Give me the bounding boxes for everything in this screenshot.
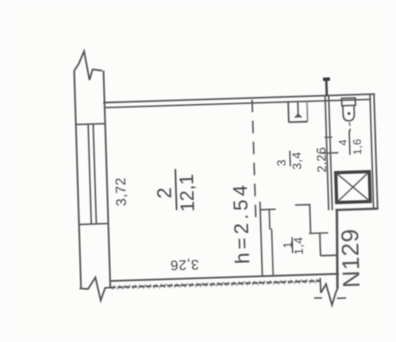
svg-text:3,72: 3,72: [112, 177, 129, 206]
wire bottom wall outer hatched line: [110, 281, 321, 288]
wire left wall inner edge: [103, 71, 110, 288]
wire entry side wall: [335, 210, 339, 289]
svg-text:12,1: 12,1: [176, 174, 199, 213]
wire corridor-bathroom wall line 1: [325, 96, 329, 211]
sink basin mark: [294, 113, 303, 117]
node wc fraction bar: [348, 131, 351, 155]
wire right wall outer line: [374, 94, 378, 209]
wire niche bottom horizontal: [321, 254, 338, 257]
wire top wall outer line: [103, 94, 375, 103]
svg-text:1,4: 1,4: [291, 236, 306, 255]
wire niche lower vertical: [319, 233, 322, 256]
ventilation shaft diagonal 2: [336, 172, 371, 203]
wire bathroom bottom wall: [335, 209, 378, 210]
ventilation shaft box: [336, 172, 371, 203]
sink left edge: [287, 101, 290, 122]
wire bottom-left wall break zigzag: [79, 277, 115, 301]
sink bottom edge: [289, 121, 308, 124]
toilet drain dashes: [349, 122, 351, 131]
wire hall partition left: [260, 202, 262, 276]
svg-text:2: 2: [154, 187, 176, 199]
wire dimension tick upper: [324, 136, 332, 138]
svg-text:h=2.54: h=2.54: [230, 181, 255, 264]
wire left wall outer edge: [74, 71, 81, 288]
wire dimension tick lower: [322, 152, 338, 155]
svg-text:N129: N129: [337, 228, 366, 288]
svg-text:3: 3: [274, 159, 288, 166]
wire hall partition right upper: [268, 210, 271, 229]
wire dashed room-corridor boundary: [252, 100, 256, 226]
svg-text:3,4: 3,4: [290, 151, 305, 170]
wire right wall inner line: [370, 94, 374, 209]
sink faucet stem: [297, 103, 299, 115]
svg-text:4: 4: [337, 139, 349, 145]
wire bottom-right break dash left: [314, 297, 322, 299]
wire window sill bottom tick: [79, 223, 108, 226]
svg-text:1,6: 1,6: [352, 138, 365, 155]
wire bottom wall inner line: [110, 274, 339, 281]
ventilation shaft diagonal 1: [336, 172, 371, 203]
wire bottom-right break dash right: [337, 297, 346, 299]
node room2 fraction bar: [175, 169, 176, 210]
wire niche middle horizontal: [309, 232, 328, 235]
toilet flush dot: [348, 112, 351, 115]
wire window pane line 1: [88, 124, 91, 224]
wire bottom-right break zigzag: [321, 284, 338, 306]
wire hall partition right lower: [272, 229, 273, 276]
wire riser tick above top wall: [325, 80, 328, 96]
wire corridor-bathroom wall line 2: [329, 96, 333, 211]
sink right edge: [306, 101, 309, 122]
wire top wall inner line: [105, 99, 371, 107]
toilet bowl: [343, 105, 355, 121]
wire niche right vertical: [309, 205, 312, 234]
wire window sill top tick: [76, 123, 105, 126]
toilet tank: [342, 98, 356, 106]
wire niche top line: [295, 204, 310, 206]
wire window pane line 2: [93, 124, 96, 224]
wire entry wall lower stub: [319, 278, 322, 293]
wire hall partition jog: [270, 228, 272, 230]
wire bottom wall hatch texture: [112, 279, 317, 290]
svg-text:3,26: 3,26: [170, 257, 199, 274]
node hall fraction bar: [291, 237, 294, 253]
svg-text:2,26: 2,26: [314, 147, 329, 173]
wire hall partition door jamb tick: [260, 208, 275, 210]
node corridor fraction bar: [289, 151, 291, 166]
wire top-left wall break zigzag: [73, 51, 102, 81]
